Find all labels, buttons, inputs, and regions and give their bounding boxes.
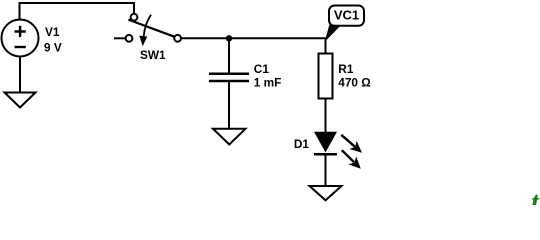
watermark t xyxy=(531,187,540,218)
svg-text:VC1: VC1 xyxy=(334,8,359,23)
wire C1 to ground xyxy=(228,82,230,129)
wire R1 to D1 xyxy=(325,99,327,133)
wire SW1 to node VC1 xyxy=(181,37,326,39)
voltage source V1 xyxy=(2,20,39,57)
svg-text:9 V: 9 V xyxy=(44,41,62,55)
SW1 common terminal xyxy=(131,14,138,21)
wire junction to C1 xyxy=(228,38,230,72)
label C1 1 mF xyxy=(254,62,282,89)
svg-text:R1: R1 xyxy=(338,62,354,76)
label V1 9 V xyxy=(44,25,62,55)
svg-text:SW1: SW1 xyxy=(140,48,166,62)
ground under D1 xyxy=(310,186,342,200)
svg-text:D1: D1 xyxy=(294,137,310,151)
label R1 470 ohm xyxy=(338,62,370,90)
junction dot at C1 tap xyxy=(226,35,232,41)
net label VC1 xyxy=(325,6,364,43)
SW1 open throw stub xyxy=(114,37,125,39)
svg-text:C1: C1 xyxy=(254,62,270,76)
svg-text:t: t xyxy=(531,187,540,205)
SW1 open throw terminal xyxy=(126,35,133,42)
LED D1 xyxy=(314,132,362,169)
label D1 xyxy=(294,137,310,151)
svg-text:1 mF: 1 mF xyxy=(254,76,282,90)
VC1 pointer to node xyxy=(325,24,341,42)
D1 light arrow 1 xyxy=(341,135,355,147)
resistor R1 xyxy=(319,54,333,99)
capacitor C1 xyxy=(209,74,249,81)
label SW1 xyxy=(140,48,166,62)
SW1 actuation arrow xyxy=(144,15,151,37)
D1 light arrow 2 xyxy=(342,150,354,162)
svg-text:V1: V1 xyxy=(45,25,60,39)
ground under V1 xyxy=(5,93,36,108)
wire V1 to ground xyxy=(19,57,21,93)
SW1 closed throw terminal xyxy=(174,35,181,42)
wire D1 to ground xyxy=(325,156,327,187)
ground under C1 xyxy=(213,129,246,145)
svg-text:470 Ω: 470 Ω xyxy=(338,76,370,90)
wire node to R1 xyxy=(325,38,327,53)
wire from V1 top to SW1 common xyxy=(20,3,135,20)
SW1 lever xyxy=(128,20,174,37)
switch SW1 xyxy=(114,14,181,47)
